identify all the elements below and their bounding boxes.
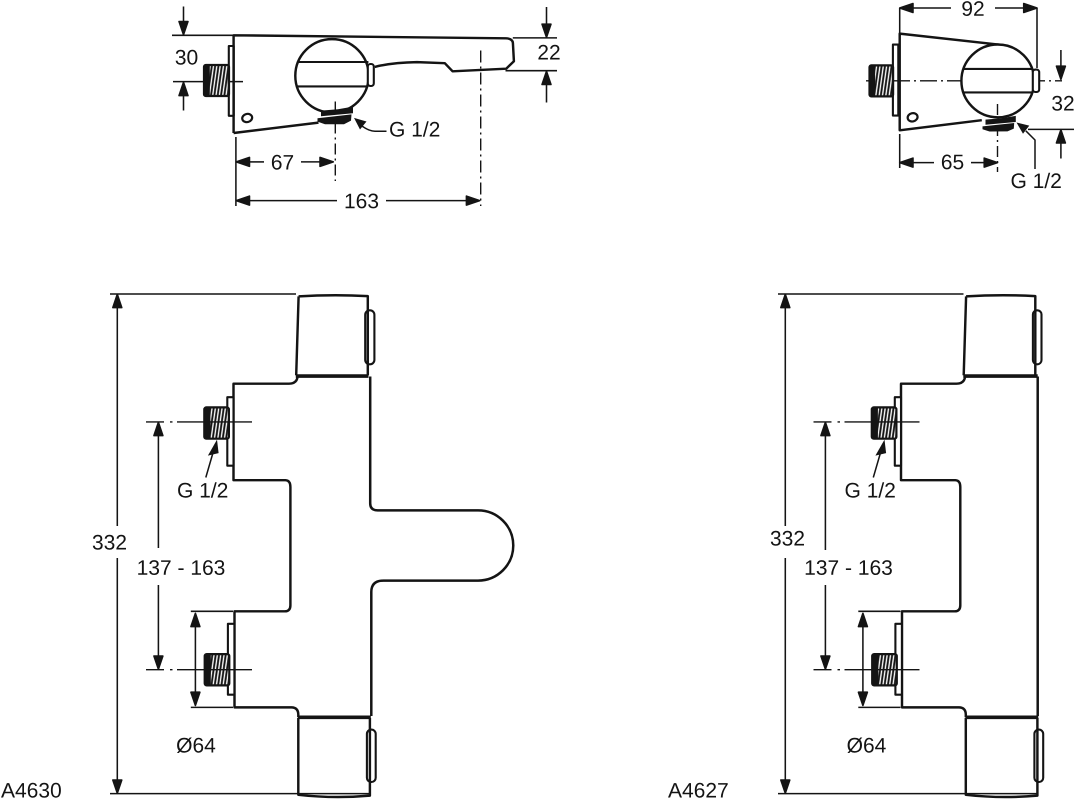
knob chord upper	[298, 61, 369, 63]
G 1/2 label (bl)	[178, 482, 227, 497]
G 1/2 outlet union (dark)	[321, 107, 353, 117]
dim text 65	[942, 155, 963, 170]
dim text 137-163	[806, 560, 892, 575]
extension line right bottom (22 dim)	[506, 70, 558, 72]
escutcheon cone body	[900, 34, 1004, 131]
dim O64	[191, 613, 200, 705]
body right side with spout	[370, 377, 513, 717]
O64 extension top	[191, 610, 233, 612]
bottom cap grip tab	[367, 730, 376, 782]
G 1/2 leader	[1017, 123, 1030, 134]
332 extension bottom	[110, 793, 369, 795]
arrow up 32	[1056, 130, 1065, 159]
dim text O64	[847, 738, 885, 754]
dim text 67	[272, 155, 293, 170]
screw hole	[907, 112, 919, 122]
top cap grip tab	[365, 310, 374, 364]
332 extension top	[110, 293, 296, 295]
bottom cap (knob)	[966, 718, 1038, 797]
G 1/2 label	[390, 121, 439, 136]
threaded inlet nipple	[870, 65, 894, 96]
top cap grip tab	[1033, 310, 1042, 364]
knob chord lower	[963, 91, 1033, 93]
lower wall flange plate	[895, 624, 902, 695]
dim text 22	[538, 45, 559, 60]
bottom cap (knob)	[298, 718, 370, 797]
O64 extension bottom	[191, 706, 233, 708]
upper boss outline	[901, 377, 966, 718]
bottom cap top heavy line	[298, 715, 371, 719]
wall flange plate	[229, 46, 234, 116]
332 extension bottom	[778, 793, 1037, 795]
dim text 92	[962, 1, 983, 16]
upper wall flange plate	[227, 397, 233, 466]
G 1/2 leader arrow	[354, 118, 367, 130]
top cap base heavy line	[296, 374, 369, 378]
arrow down 22	[542, 7, 551, 37]
G 1/2 outlet union (dark)	[986, 116, 1016, 125]
O64 extension top	[858, 610, 900, 612]
product code A4630	[1, 783, 61, 798]
screw hole	[241, 113, 253, 123]
hub cap	[1033, 70, 1039, 92]
dim 137-163	[821, 422, 830, 669]
outlet centerline	[334, 102, 336, 182]
upper inlet centerline	[146, 421, 252, 423]
dim 67	[236, 157, 333, 166]
upper threaded inlet	[872, 407, 897, 438]
dim text 163	[346, 194, 379, 209]
dim text 137-163	[138, 560, 224, 575]
knob circle	[961, 45, 1034, 118]
extension line right top (22 dim)	[513, 37, 557, 39]
dim 332	[113, 294, 122, 793]
upper threaded inlet	[204, 407, 229, 438]
bottom cap grip tab	[1034, 730, 1043, 782]
outlet centerline vertical	[997, 104, 999, 172]
dim 65	[900, 158, 998, 167]
spout centerline	[480, 51, 482, 207]
arrow down 32	[1056, 50, 1065, 79]
main centerline	[866, 80, 1062, 82]
body bottom edge	[234, 123, 319, 133]
top cap (knob)	[296, 295, 368, 375]
extension line top (30 dim)	[172, 34, 259, 36]
G 1/2 label (br)	[846, 482, 895, 497]
lower threaded inlet	[205, 654, 230, 685]
threaded inlet nipple	[204, 65, 229, 96]
top cap (knob)	[964, 295, 1036, 375]
dim text 332	[93, 535, 126, 550]
dim 163	[236, 196, 480, 205]
dim 92	[900, 4, 1037, 13]
332 extension top	[778, 293, 964, 295]
knob chord lower	[297, 85, 368, 87]
G 1/2 leader (bl)	[208, 440, 219, 456]
upper inlet centerline	[814, 421, 920, 423]
product code A4627	[668, 783, 728, 798]
extension line left (67/163 dims)	[235, 137, 237, 206]
bottom cap top heavy line	[965, 715, 1038, 719]
upper boss outline	[234, 377, 299, 718]
body right side straight	[1036, 377, 1039, 717]
extension line (32 bottom)	[1028, 128, 1074, 130]
extension line left (92)	[899, 8, 901, 33]
G 1/2 leader (br)	[875, 440, 886, 456]
dim 332	[781, 294, 790, 793]
knob chord upper	[963, 68, 1033, 70]
arrow up 22	[542, 71, 551, 102]
dim text O64	[177, 738, 215, 754]
G 1/2 label	[1012, 173, 1061, 188]
lever hub cap	[368, 64, 374, 86]
lower threaded inlet	[872, 654, 897, 685]
dim text 32	[1052, 96, 1074, 111]
faucet body and lever silhouette	[234, 35, 514, 133]
dim text 30	[176, 50, 198, 65]
extension line right (92)	[1036, 8, 1038, 68]
arrow down 30	[179, 7, 188, 35]
extension/center line through inlet (30 dim lower)	[173, 81, 243, 83]
O64 extension bottom	[858, 706, 900, 708]
top cap base heavy line	[963, 374, 1037, 378]
arrow up 30	[179, 82, 188, 110]
dim 137-163	[154, 422, 163, 669]
control knob circle	[295, 39, 368, 112]
dim text 332	[771, 531, 804, 546]
lower inlet centerline	[146, 669, 252, 671]
lower wall flange plate	[228, 624, 235, 695]
dim O64	[858, 613, 867, 705]
lower inlet centerline	[814, 669, 920, 671]
wall flange plate	[893, 45, 898, 116]
extension line left (65)	[899, 134, 901, 168]
upper wall flange plate	[895, 397, 901, 466]
